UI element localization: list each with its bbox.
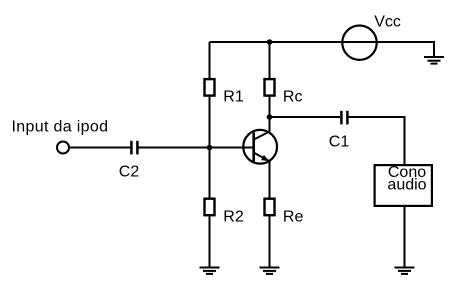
svg-text:Vcc: Vcc: [374, 14, 401, 31]
svg-text:C1: C1: [329, 134, 350, 151]
svg-text:C2: C2: [119, 164, 140, 181]
svg-text:audio: audio: [387, 176, 426, 193]
svg-text:Rc: Rc: [283, 89, 303, 106]
svg-text:R2: R2: [223, 209, 244, 226]
svg-text:R1: R1: [223, 89, 244, 106]
svg-text:Input da ipod: Input da ipod: [12, 118, 109, 135]
svg-text:Re: Re: [283, 209, 304, 226]
